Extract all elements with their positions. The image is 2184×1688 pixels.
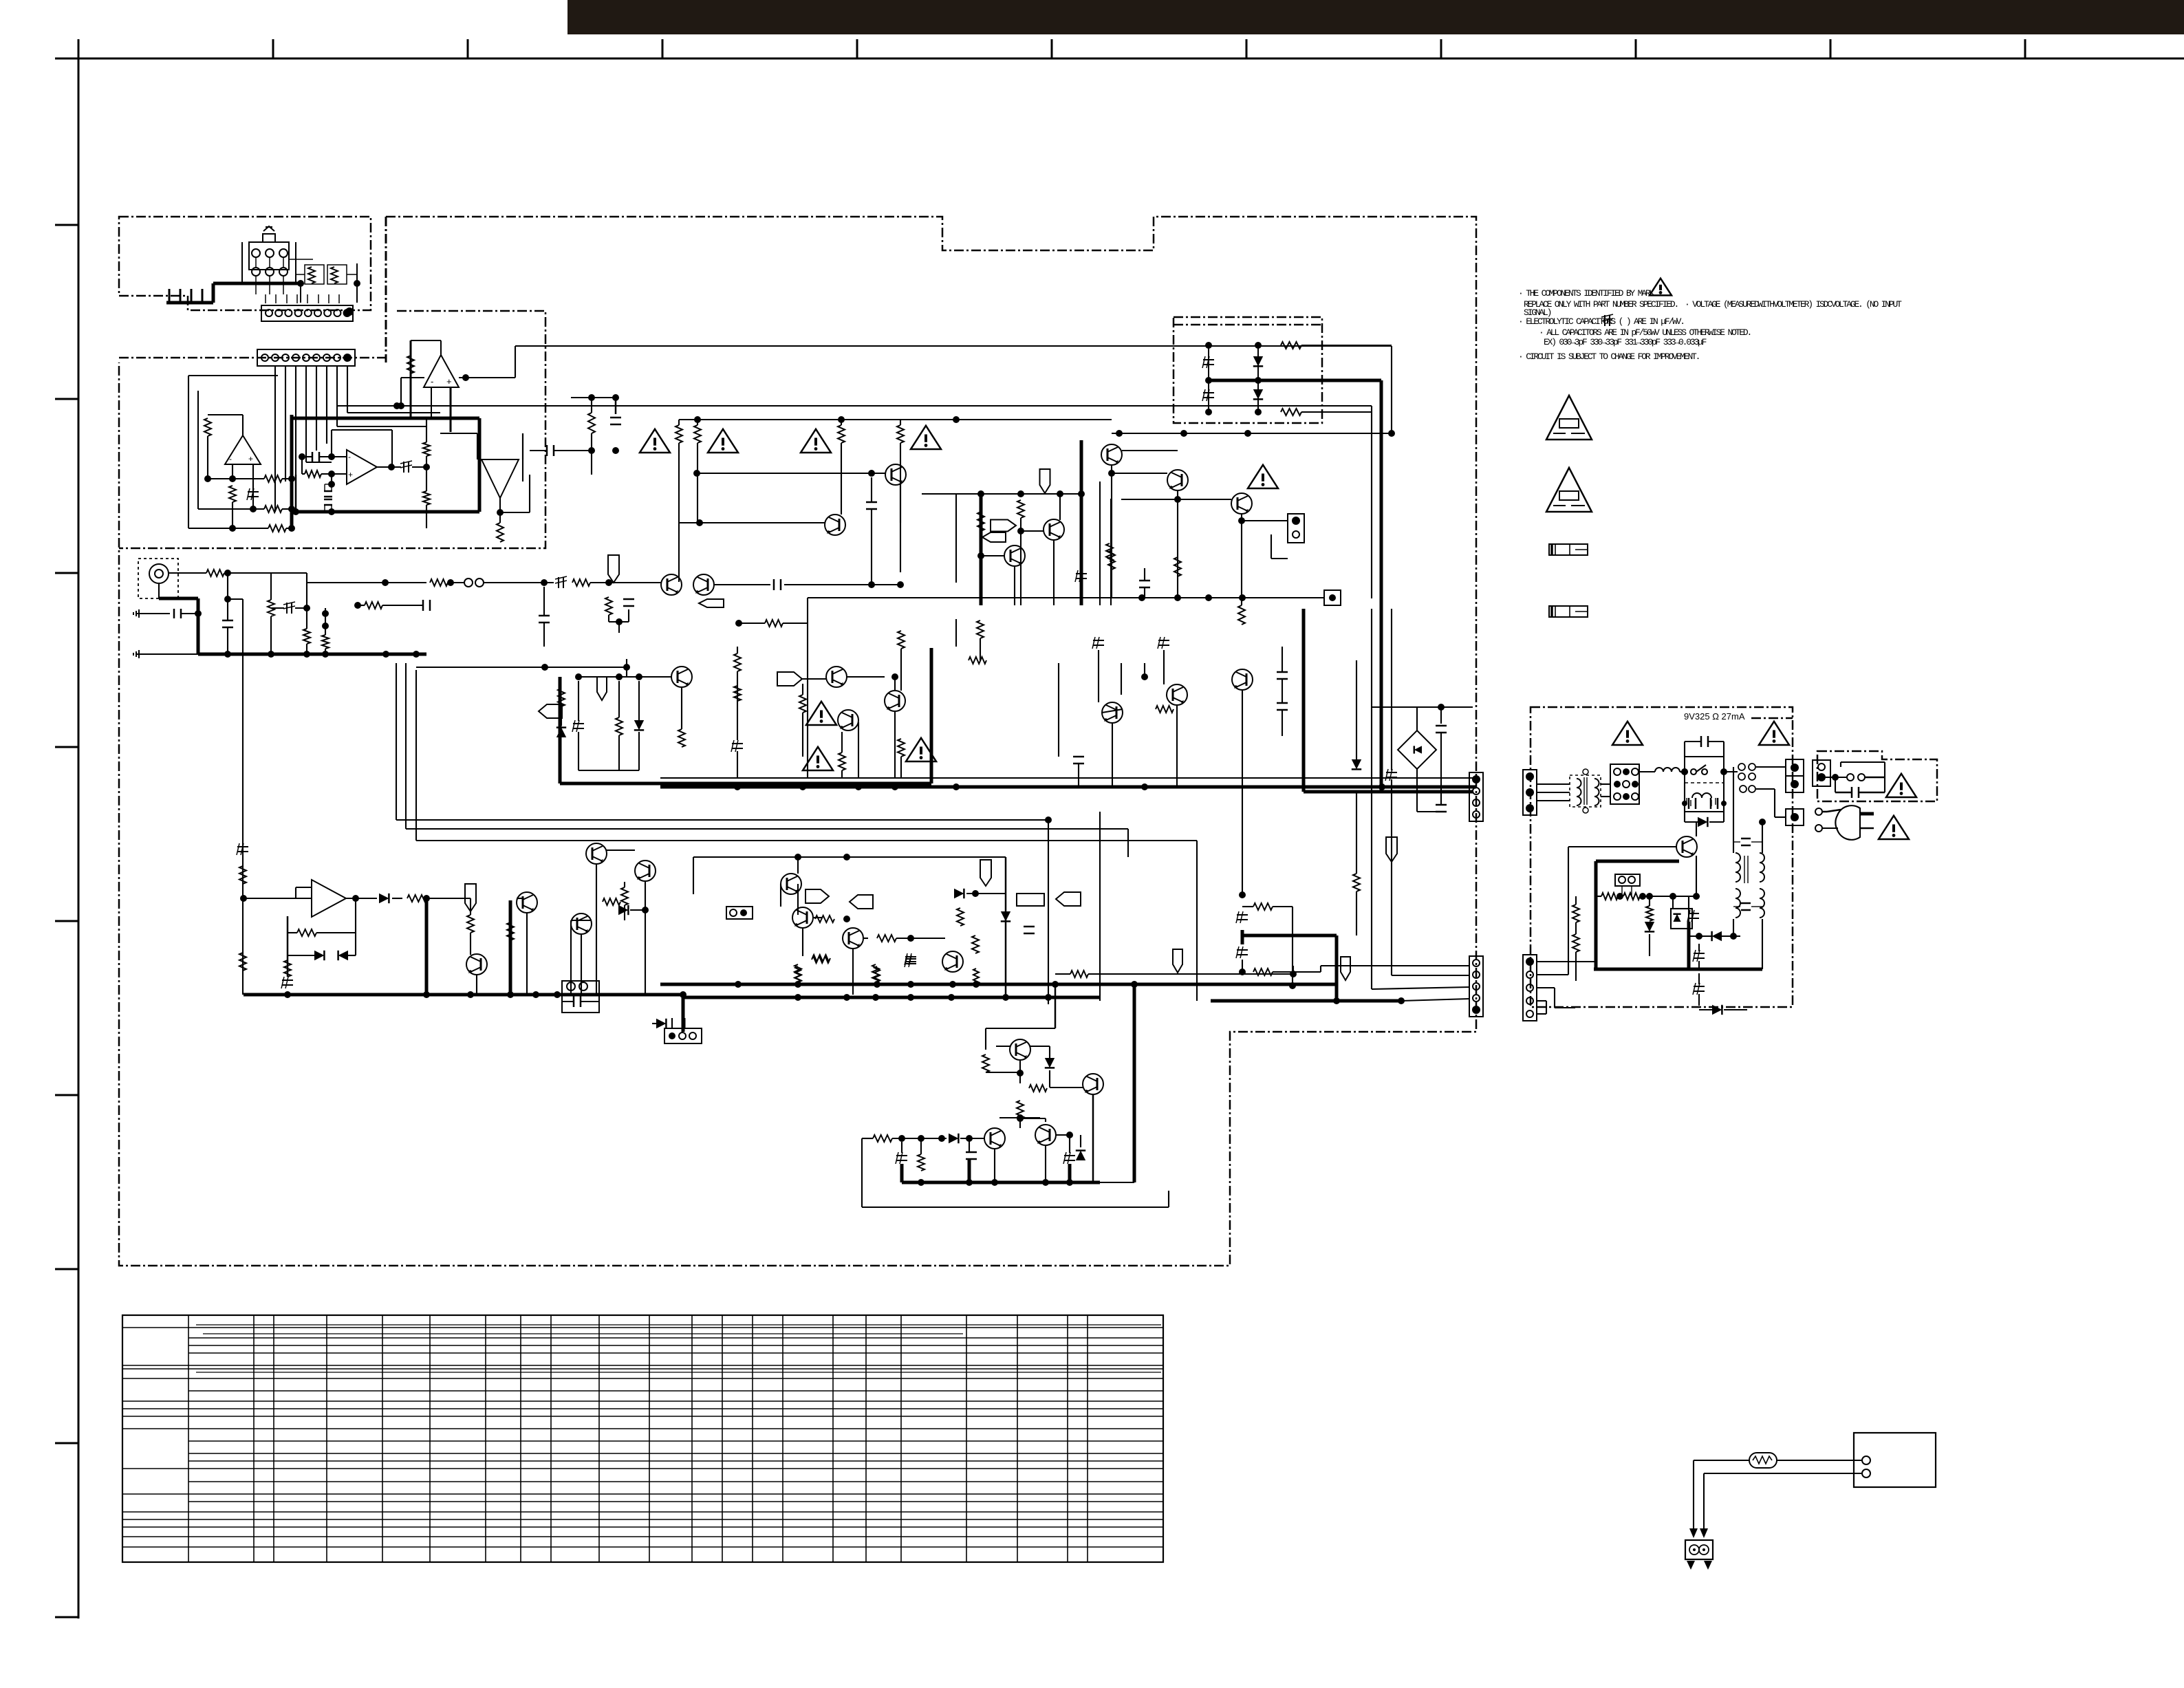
capacitor C7 [610,417,621,419]
wire [426,456,427,467]
transistor Q24 [1232,669,1253,690]
wire [1555,605,1556,618]
transistor Q17 [843,928,863,949]
wire [980,638,981,660]
wire [122,1519,188,1520]
wire [1601,796,1610,797]
wire [1690,800,1691,806]
junction [991,1179,998,1186]
inductor L1 [1577,779,1581,805]
wire [591,433,592,475]
electrolytic capacitor C30 [1158,640,1169,641]
wire [382,605,423,606]
wire [841,732,843,753]
transistor Q4 [825,515,845,535]
wire [411,340,441,341]
wire [1005,857,1007,997]
wire [1827,810,1841,812]
wire [426,505,427,528]
wire [55,1616,78,1619]
wire [406,828,1128,830]
electrolytic capacitor C9 [286,603,288,614]
resistor R68 [1572,905,1579,922]
wire [1733,767,1734,853]
junction [605,579,612,586]
net label flag [777,672,802,686]
wire [1822,811,1827,813]
wire [1762,919,1763,969]
diode D3 [556,728,566,737]
wire [985,1028,986,1050]
svg-text:· CIRCUIT IS SUBJECT TO CHANGE: · CIRCUIT IS SUBJECT TO CHANGE FOR IMPRO… [1518,351,1699,362]
wire [581,934,582,995]
resistor R45 [815,916,834,922]
wire [802,684,803,695]
resistor R69 [1572,934,1579,952]
resistor R28 [977,512,984,531]
resistor R32 [1281,409,1301,415]
wire [188,1546,1163,1548]
wire [411,418,431,420]
junction [794,994,801,1001]
wire [1371,406,1372,598]
resistor R79 [873,1135,892,1142]
wire [1575,549,1588,550]
wire [188,1526,1163,1528]
wire (thick bus) [1080,440,1083,605]
relay box [1685,757,1724,812]
wire [356,263,358,303]
transistor Q26 [942,951,963,972]
wire [224,572,307,574]
wire (thick bus) [292,417,479,420]
wire [649,1315,650,1562]
wire [122,1428,188,1429]
net label flag [699,599,724,607]
junction [343,309,352,317]
wire [296,294,298,303]
wire [1371,761,1372,989]
wire [1693,1460,1694,1528]
junction [288,525,295,532]
wire [1775,816,1786,818]
pcb outline (dash-dot) [385,217,387,363]
wire [1021,530,1044,532]
wire [1704,1473,1862,1474]
wire [1049,1070,1050,1088]
wire [871,509,872,583]
wire [382,1315,383,1562]
transistor Q3 [885,464,906,485]
transistor Q8 [1167,470,1188,490]
svg-text:+: + [348,470,353,479]
wire [1356,660,1357,759]
wire [1110,499,1112,605]
inductor L7 [1736,889,1740,918]
wire (thick bus) [1209,379,1381,382]
junction [636,673,642,680]
wire (thick bus) [930,648,933,783]
wire [900,1315,902,1562]
wire [522,433,523,481]
resistor R40 [284,960,291,977]
warning mark [1248,465,1278,488]
wire [282,478,292,479]
wire [252,464,254,509]
wire [752,1315,753,1562]
wire [1053,539,1055,605]
wire [316,366,317,451]
wire [955,494,957,583]
junction [423,991,430,998]
junction [413,651,420,658]
wire [986,1028,1055,1029]
diode D5 [379,894,389,903]
wire [450,387,452,432]
diode D2 [1253,389,1263,399]
wire [1112,722,1113,787]
resistor R19 [239,953,246,971]
wire [1056,1134,1070,1136]
junction [949,981,956,988]
svg-text:· VOLTAGE (MEASUREDWITHVOLTMET: · VOLTAGE (MEASUREDWITHVOLTMETER) ISDCVO… [1685,299,1902,310]
bottom right unit [1854,1433,1936,1487]
wire [305,366,307,462]
wire [871,477,872,502]
resistor R46 [877,935,896,942]
junction [1078,490,1085,497]
wire [287,916,289,977]
wire [624,882,625,887]
capacitor C20 [1139,580,1150,582]
wire [188,1352,1163,1354]
wire [900,757,902,778]
junction [740,909,747,916]
junction [1720,768,1727,775]
wire [306,608,307,629]
wire [1320,966,1321,972]
junction [948,994,955,1001]
wire [241,242,243,283]
wire [615,398,617,414]
wire (thick bus) [1241,930,1244,944]
zener in box [1671,909,1692,929]
wire [188,1468,1163,1469]
electrolytic capacitor C6 [403,462,404,473]
wire [296,274,305,275]
wire [515,345,1392,347]
junction [388,464,395,470]
inductor L4 [1692,793,1711,798]
wire [328,294,329,303]
resistor R10 [423,442,430,456]
wire [900,649,902,691]
wire [191,289,193,303]
transistor Q29 [984,1128,1005,1149]
wire [1055,973,1070,975]
wire [500,512,530,513]
junction [1017,490,1024,497]
wire [269,276,270,294]
wire (thick bus) [660,786,1476,789]
wire [274,366,276,512]
wire (thick bus) [197,598,200,654]
wire [1720,935,1740,937]
wire [78,39,80,1619]
wire [841,420,842,425]
wire [1273,971,1321,973]
wire [227,573,228,620]
wire [1301,345,1392,346]
junction [1238,517,1245,524]
capacitor C13 [422,600,424,611]
wire [188,1453,1163,1454]
wire [1301,411,1372,413]
junction [977,490,984,497]
wire [1596,896,1601,897]
wire [182,613,198,614]
junction [423,464,430,470]
wire [272,39,274,58]
wire [477,433,478,459]
wire [782,1315,783,1562]
resistor R48 [812,956,830,963]
wire [1440,39,1442,58]
wire [307,582,426,583]
wire [626,659,627,677]
wire [198,508,264,510]
junction [1681,768,1688,775]
wire [122,1408,188,1409]
wire [1756,788,1775,790]
transistor Q25 [1676,836,1697,857]
inductor L5 [1736,853,1740,882]
pcb outline (dash-dot) [1817,751,1937,801]
wire [203,1333,963,1334]
junction [1791,780,1799,788]
wire [1100,1182,1134,1183]
wire [1019,1073,1021,1083]
resistor R58 [898,631,905,649]
wire [1686,798,1687,805]
junction [541,664,548,671]
wire [410,340,412,419]
junction [345,307,354,316]
wire [1696,822,1697,836]
wire [1631,886,1632,896]
resistor R33 [1108,550,1115,570]
wire [338,294,340,303]
wire [981,555,1005,556]
junction [303,651,310,658]
inductor L3 [1655,768,1680,772]
wire [295,887,296,898]
wire [169,572,206,574]
resistor R7 [264,506,282,512]
capacitor C45 [1741,838,1751,840]
capacitor C10 [173,609,175,618]
wire [337,405,1372,407]
wire [122,1365,188,1366]
resistor R30 [1106,543,1113,561]
wire [1694,1460,1749,1461]
electrolytic capacitor C44 [1694,986,1705,987]
resistor R55 [734,686,741,701]
electrolytic capacitor C38 [1237,949,1248,951]
junction [195,610,202,617]
wire [1282,710,1283,736]
wire [955,619,957,647]
junction [843,994,850,1001]
wire [1841,761,1885,763]
capacitor C11 [222,620,233,622]
wire [158,583,160,598]
wire [1826,777,1835,778]
ground [137,653,147,655]
warning mark [911,426,941,449]
wire [396,819,1048,821]
junction [1255,342,1262,349]
svg-text:+: + [248,454,253,464]
wire [865,1315,867,1562]
transistor Q16 [792,907,813,928]
resistor R34 [1174,557,1181,576]
wire [325,484,332,485]
wire (thick bus) [198,653,426,656]
junction [938,1135,945,1142]
wire [55,746,78,748]
title bar [567,0,2184,34]
wire (thick bus) [509,900,512,995]
wire [1696,856,1697,896]
junction [1019,1182,1021,1183]
2pin connector [1288,514,1304,543]
wire [1098,650,1099,702]
junction [292,508,299,515]
wire [326,1315,327,1562]
wire [1055,984,1057,1028]
capacitor C46 [1741,902,1751,905]
wire [1640,896,1700,897]
wire [429,1315,431,1562]
wire [966,893,1006,894]
junction [1239,969,1246,975]
resistor R20 [365,602,382,609]
warning mark [1886,774,1916,797]
warning mark [806,702,836,725]
resistor R17 [322,635,329,649]
wire [862,1207,1169,1208]
junction [382,651,389,658]
wire [1246,39,1248,58]
junction [642,907,649,913]
wire [55,398,78,400]
junction [680,991,686,998]
resistor R65 [1253,969,1273,975]
wire [894,711,896,778]
wire [1586,777,1588,805]
wire (thick bus) [682,1018,686,1028]
warning mark [801,429,831,453]
wire [900,420,901,425]
pcb outline (dash-dot) [1751,717,1793,719]
junction [872,994,879,1001]
junction [268,651,274,658]
diode D8 [618,905,628,915]
wire [325,649,326,654]
wire [693,856,1006,858]
wire [526,913,528,995]
resistor R60 [977,620,984,638]
op-amp U2 [312,880,346,917]
wire [188,1493,1163,1495]
net flag [608,555,619,583]
wire [579,770,639,771]
wire [440,340,442,355]
junction [1180,430,1187,437]
wire [737,671,738,740]
resistor R64 [1253,903,1273,910]
junction [868,581,875,588]
wire [1859,792,1885,794]
warning mark [1879,816,1909,839]
junction [204,475,211,482]
wire [1099,481,1101,605]
resistor R14 [206,570,224,576]
wire [288,955,314,956]
wire [1884,762,1885,777]
jumper 2 circles [1615,874,1640,886]
wire [1715,798,1716,805]
junction [1639,893,1646,900]
wire [377,466,401,468]
resistor R24 [675,425,682,443]
junction [1042,1179,1049,1186]
net flag [980,860,991,886]
capacitor C36 [1436,804,1447,806]
wire [188,1378,1163,1379]
transistor Q5 [1004,545,1025,566]
wire [358,605,365,606]
op-amp U2 [225,435,261,464]
wire (thick bus) [1687,922,1691,969]
wire [679,419,1112,420]
capacitor C40 [1688,798,1690,809]
net label flag [850,895,873,909]
wire [618,735,620,770]
wire [1078,764,1079,787]
wire [1709,821,1724,823]
wire [1554,988,1555,1008]
resistor R39 [297,929,316,936]
wire (thick bus) [1594,968,1762,971]
resistor R78 [1017,1101,1024,1118]
pcb outline (dash-dot) [119,217,1476,1266]
wire [55,1094,78,1096]
wire [296,887,312,888]
wire [543,587,545,616]
wire [1321,965,1469,966]
wire [1723,742,1725,757]
wire [1017,1315,1018,1562]
wire [1050,1087,1083,1088]
parts table [122,1315,1163,1562]
junction [1333,997,1340,1004]
junction [1289,982,1296,989]
wire [188,1428,1163,1429]
resistor R72 [795,966,801,982]
wire [530,450,547,451]
